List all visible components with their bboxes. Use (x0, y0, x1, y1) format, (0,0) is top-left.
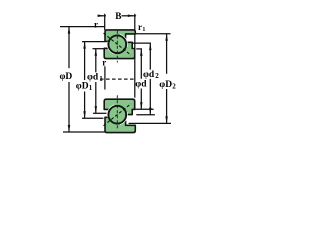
arrowhead B left (98, 15, 105, 17)
svg-text:r: r (94, 19, 98, 29)
arrowhead phiD2 bottom (165, 116, 168, 123)
svg-text:φD: φD (60, 72, 73, 82)
wire: B extension line left (104, 14, 106, 30)
arrowhead phid1 bottom (95, 106, 98, 113)
wire: B extension line right (134, 14, 136, 31)
arrowhead phiD1 bottom (83, 111, 86, 118)
svg-text:1: 1 (99, 75, 103, 83)
svg-text:2: 2 (172, 82, 176, 90)
wire: dimension line phiD lower segment (68, 82, 70, 132)
wire: ball bottom diagonal contact dashed line (104, 104, 132, 126)
wire: dimension line phiD2 lower segment (166, 89, 168, 123)
svg-text:φd: φd (87, 73, 99, 83)
wire: dimension line phid (140, 49, 142, 79)
svg-text:φd: φd (143, 70, 155, 80)
washer: housing washer bottom section (104, 99, 135, 114)
arrowhead phid1 top (95, 49, 98, 56)
svg-text:B: B (115, 12, 121, 22)
svg-text:φd: φd (135, 79, 147, 89)
wire: dimension line phiD2 (166, 34, 168, 74)
washer: shaft washer top section (105, 30, 135, 42)
wire: B dimension line right segment (122, 15, 137, 17)
wire: extension line phiD2 top (135, 33, 171, 35)
wire: dimension line phid1 lower segment (95, 82, 97, 113)
wire: extension line phid2 top (133, 42, 151, 44)
svg-text:φD: φD (76, 82, 89, 92)
washer: shaft washer bottom section (105, 117, 135, 132)
wire: bearing side face line right (134, 34, 136, 98)
wire: dimension line phid2 (149, 43, 151, 70)
washer: housing washer top section (104, 42, 135, 58)
ball bottom (108, 106, 126, 124)
wire: extension line phid2 bottom (136, 114, 155, 116)
svg-text:r: r (102, 58, 106, 68)
arrowhead phid bottom (140, 102, 143, 109)
wire: extension line phid top (136, 48, 142, 50)
wire: extension line phiD1 top (82, 41, 105, 43)
wire: center axis dashed line (100, 78, 135, 80)
arrowhead phid2 bottom (149, 108, 152, 115)
wire: extension line phiD bottom (63, 131, 105, 133)
wire: ball top diagonal contact dashed line (104, 33, 132, 55)
svg-text:r: r (138, 22, 142, 32)
wire: dimension line phiD1 (84, 42, 86, 80)
svg-text:1: 1 (89, 84, 93, 92)
wire: bearing side face line left (r extension) (104, 66, 106, 89)
wire: dimension line phiD1 lower segment (84, 92, 86, 119)
ball top: white clearance arcs (120, 35, 127, 47)
arrowhead phid top (140, 49, 143, 56)
arrowhead B right (128, 15, 135, 17)
wire: extension line phiD top (60, 26, 105, 28)
arrowhead phiD2 top (165, 34, 168, 41)
ball top (108, 35, 126, 53)
wire: extension line phid1 top (93, 48, 105, 50)
arrowhead phiD1 top (83, 42, 86, 49)
ball bottom: white clearance arcs (120, 112, 127, 124)
svg-text:1: 1 (142, 27, 145, 33)
arrowhead phid2 top (149, 43, 152, 50)
wire: extension line phiD2 bottom (129, 122, 171, 124)
arrowhead phiD bottom (68, 125, 71, 132)
wire: dimension line phid2 lower segment (149, 79, 151, 115)
wire: ball bottom vertical dashed centerline (116, 95, 118, 129)
wire: dimension line phiD (68, 27, 70, 69)
wire: extension line phiD1 bottom (82, 117, 103, 119)
wire: ball top vertical dashed centerline (116, 31, 118, 63)
arrowhead phiD top (68, 27, 71, 34)
wire: dimension line phid lower segment (140, 89, 142, 110)
svg-text:φD: φD (159, 80, 172, 90)
wire: extension line phid1 bottom (93, 112, 107, 114)
wire: dimension line phid1 (95, 49, 97, 73)
wire: extension line phid bottom (134, 108, 154, 110)
wire: B dimension line (98, 15, 107, 17)
